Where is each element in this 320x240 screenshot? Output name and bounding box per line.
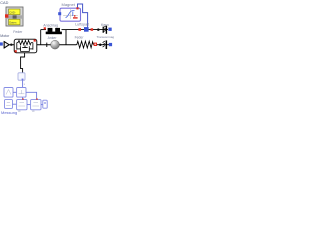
- svg-text:Magnet: Magnet: [62, 2, 76, 7]
- svg-text:Feder: Feder: [75, 35, 85, 39]
- svg-text:Motor: Motor: [0, 34, 10, 38]
- svg-text:Daten: Daten: [9, 21, 17, 25]
- svg-text:CAD: CAD: [0, 1, 8, 5]
- svg-text:Transvermag: Transvermag: [97, 35, 115, 39]
- svg-text:Feder: Feder: [13, 30, 23, 34]
- svg-text:Messung: Messung: [1, 110, 17, 115]
- svg-text:Luftspalt: Luftspalt: [75, 22, 89, 26]
- svg-text:Anker: Anker: [48, 36, 58, 40]
- svg-text:CAD-: CAD-: [9, 10, 16, 14]
- svg-text:Anschlag: Anschlag: [43, 24, 58, 28]
